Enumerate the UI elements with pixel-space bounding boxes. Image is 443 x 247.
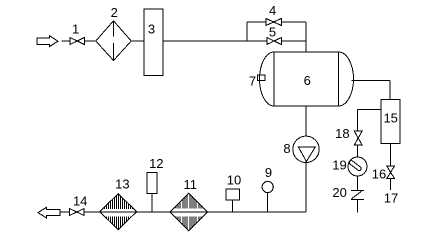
valve V5 bbox=[267, 38, 282, 45]
filter F13 hatched diamond bbox=[100, 194, 137, 230]
wire 15 to 16 bbox=[390, 144, 392, 167]
valve V16 vertical bbox=[387, 166, 395, 178]
wire bbox=[62, 40, 71, 42]
wire bbox=[137, 211, 170, 213]
wire outlet below 16 bbox=[390, 178, 392, 190]
wire main to vessel bbox=[163, 40, 267, 42]
svg-text:6: 6 bbox=[304, 73, 311, 88]
bottom main line bbox=[208, 211, 306, 213]
svg-text:8: 8 bbox=[283, 141, 290, 156]
svg-text:3: 3 bbox=[148, 22, 155, 37]
svg-text:14: 14 bbox=[73, 194, 87, 209]
nozzle 7 bbox=[258, 75, 266, 81]
wire bbox=[84, 40, 96, 42]
inlet flow arrow bbox=[37, 36, 58, 47]
svg-text:18: 18 bbox=[335, 126, 349, 141]
branch wire 15 to 18 bbox=[358, 108, 382, 110]
wire bbox=[357, 176, 359, 190]
vessel bottom wire bbox=[305, 106, 307, 136]
svg-text:7: 7 bbox=[249, 74, 256, 89]
svg-text:4: 4 bbox=[269, 3, 276, 18]
svg-text:1: 1 bbox=[72, 22, 79, 37]
gauge 9 bbox=[267, 193, 269, 213]
wire bbox=[84, 211, 100, 213]
flex joint 20 bbox=[351, 191, 364, 200]
valve V18 vertical bbox=[354, 131, 362, 145]
wire bbox=[357, 145, 359, 157]
instrument 10 bbox=[232, 200, 234, 212]
bypass wires bbox=[246, 22, 248, 41]
svg-text:10: 10 bbox=[227, 173, 241, 188]
sight glass 19 bbox=[348, 157, 367, 176]
wire bbox=[61, 211, 70, 213]
svg-text:5: 5 bbox=[269, 25, 276, 40]
svg-text:11: 11 bbox=[184, 177, 198, 192]
svg-text:16: 16 bbox=[372, 167, 386, 182]
svg-text:9: 9 bbox=[265, 165, 272, 180]
filter F11 hatched diamond bbox=[170, 193, 208, 231]
column U3 bbox=[144, 9, 163, 76]
svg-text:17: 17 bbox=[384, 191, 398, 206]
svg-text:20: 20 bbox=[332, 185, 346, 200]
pump P8 bbox=[293, 136, 319, 162]
valve V1 bbox=[70, 38, 84, 45]
valve V4 bbox=[266, 19, 281, 26]
wire bbox=[131, 40, 144, 42]
svg-text:19: 19 bbox=[332, 158, 346, 173]
svg-text:12: 12 bbox=[149, 156, 163, 171]
filter F2 diamond bbox=[96, 21, 131, 61]
instrument 12 bbox=[151, 194, 153, 212]
pump outlet wire bbox=[305, 163, 307, 213]
wire open end bbox=[357, 200, 359, 213]
svg-text:2: 2 bbox=[111, 5, 118, 20]
valve V14 bbox=[69, 209, 84, 216]
svg-text:15: 15 bbox=[383, 111, 397, 126]
drier U15 bbox=[381, 100, 400, 144]
wire vessel outlet right bbox=[352, 80, 391, 82]
vessel T6 bbox=[260, 52, 354, 106]
outlet flow arrow bbox=[38, 207, 60, 218]
svg-text:13: 13 bbox=[115, 177, 129, 192]
